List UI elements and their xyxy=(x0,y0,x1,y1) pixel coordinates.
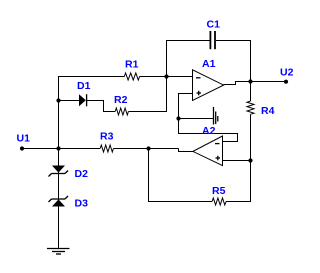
svg-text:R2: R2 xyxy=(114,94,128,106)
resistor R1 xyxy=(124,73,139,80)
wire R2 right lead xyxy=(128,77,166,112)
wire A1 output xyxy=(224,82,287,85)
wire R5 left riser xyxy=(149,149,213,202)
resistor R2 xyxy=(115,108,128,115)
wire A1 plus input lead xyxy=(179,94,238,142)
svg-text:U1: U1 xyxy=(17,132,31,144)
wire R1 right lead to A1 minus input xyxy=(140,76,193,78)
capacitor C1 xyxy=(210,31,216,49)
wire U1 lead xyxy=(22,148,100,150)
svg-text:D3: D3 xyxy=(75,198,89,210)
wire R1 line left lead xyxy=(58,76,124,78)
wire A2 output jog xyxy=(179,149,193,152)
ground (middle, pointing right) xyxy=(214,107,218,125)
op-amp A2 xyxy=(193,136,223,166)
wire C1 top right lead xyxy=(216,41,251,102)
svg-text:R5: R5 xyxy=(212,185,226,197)
svg-text:U2: U2 xyxy=(280,67,294,79)
node junction trunk/U1 line xyxy=(56,146,60,150)
wire D1 right lead xyxy=(87,101,116,112)
node junction A2+/R4/R5 xyxy=(248,158,252,162)
node junction R1/C1/A1- xyxy=(164,74,168,78)
svg-text:C1: C1 xyxy=(207,19,221,31)
ground (bottom) xyxy=(47,249,70,255)
op-amp A1 xyxy=(193,70,224,101)
svg-text:R4: R4 xyxy=(261,105,275,117)
svg-text:R3: R3 xyxy=(100,131,114,143)
wire to middle ground xyxy=(179,118,214,120)
wire C1 top left lead xyxy=(167,41,210,77)
terminal U1 xyxy=(20,146,24,150)
svg-text:R1: R1 xyxy=(125,59,139,71)
zener diode D3 xyxy=(49,196,69,207)
wire left trunk rail xyxy=(58,77,60,249)
node junction ground net xyxy=(176,116,180,120)
terminal U2 xyxy=(284,80,288,84)
zener diode D2 xyxy=(49,166,69,177)
diode D1 xyxy=(79,94,87,106)
svg-text:D2: D2 xyxy=(75,168,89,180)
svg-text:A2: A2 xyxy=(202,125,216,137)
resistor R4 xyxy=(247,101,254,114)
svg-text:A1: A1 xyxy=(202,58,216,70)
resistor R5 xyxy=(212,198,226,205)
wire right rail bottom (R4 to R5 corner) xyxy=(226,114,250,201)
svg-text:D1: D1 xyxy=(77,80,91,92)
wire R3 right lead xyxy=(113,148,178,150)
wire D1 left lead xyxy=(59,100,80,102)
resistor R3 xyxy=(100,145,113,152)
node junction trunk/D1 xyxy=(56,98,60,102)
node junction R3/A2out/R5 xyxy=(146,146,150,150)
node junction A1out/C1/R4/U2 xyxy=(248,79,252,83)
wire A2 plus input lead xyxy=(223,160,251,162)
